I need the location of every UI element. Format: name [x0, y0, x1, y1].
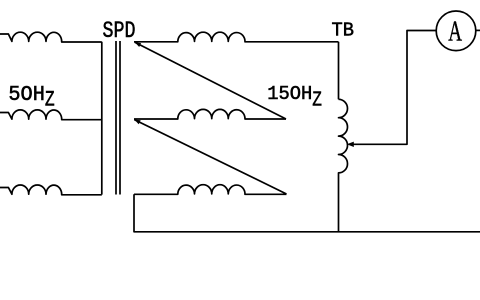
svg-text:TB: TB: [332, 20, 355, 42]
svg-text:SPD: SPD: [103, 18, 136, 44]
svg-text:15OH: 15OH: [267, 83, 312, 105]
svg-text:Z: Z: [45, 88, 55, 113]
svg-text:A: A: [448, 16, 462, 48]
svg-text:Z: Z: [312, 88, 322, 112]
svg-text:5OH: 5OH: [8, 83, 45, 107]
